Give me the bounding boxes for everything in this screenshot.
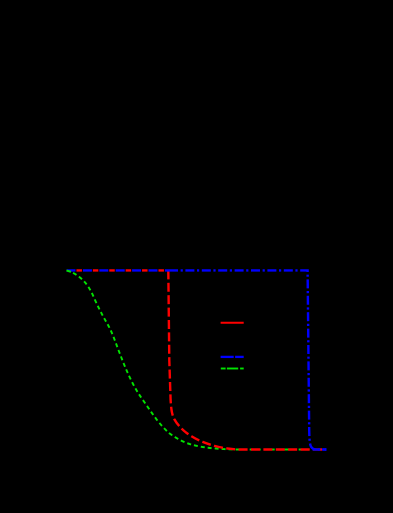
green start dash over line: [67, 270, 72, 271]
blue bottom tail dashes: [313, 448, 320, 450]
blue curve (dash-dot): [169, 270, 327, 449]
green curve (sigmoid, short dashes): [67, 270, 327, 449]
legend red swatch: [221, 322, 244, 324]
legend green swatch: [221, 368, 226, 370]
red curve (long dashes): [168, 270, 326, 449]
legend blue swatch: [221, 356, 234, 358]
red curve top segment (fills gaps of blue dash-dot): [67, 269, 170, 271]
blue curve top-left segment (plain dashes over red): [67, 269, 170, 271]
